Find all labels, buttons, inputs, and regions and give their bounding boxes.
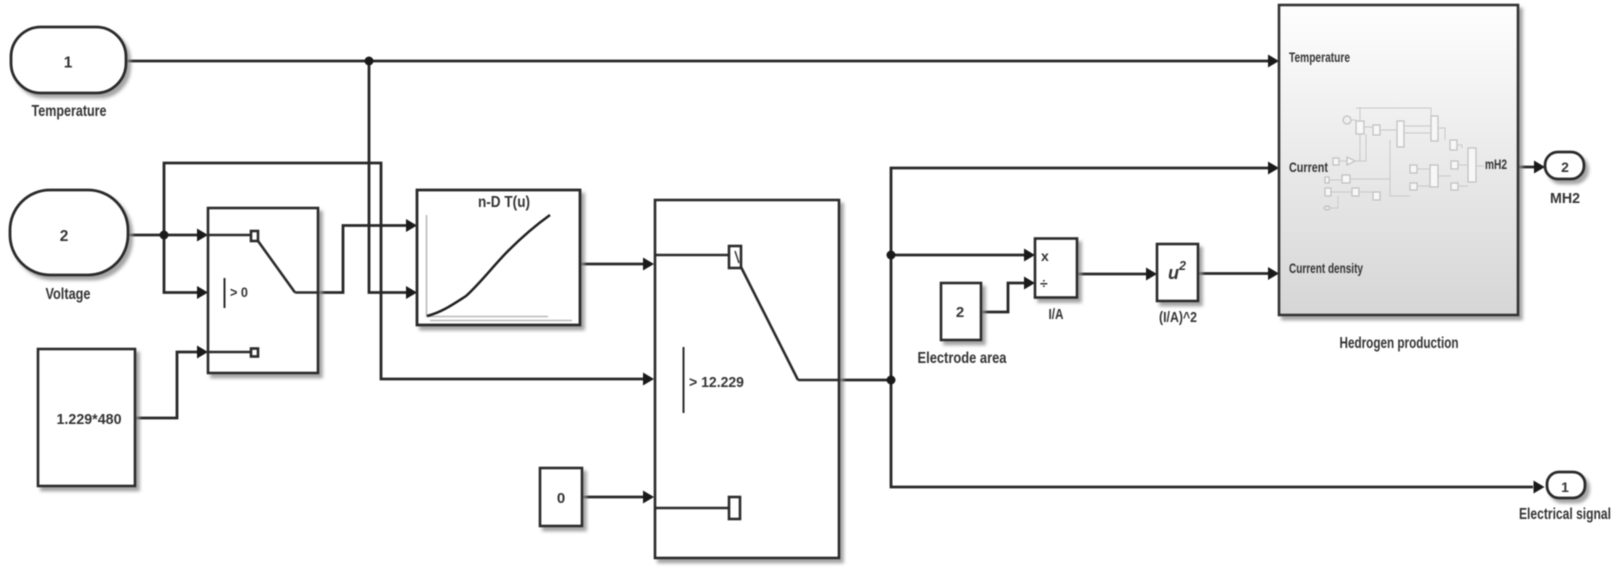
svg-text:x: x	[1041, 248, 1049, 264]
svg-text:Hedrogen production: Hedrogen production	[1340, 335, 1459, 352]
svg-text:MH2: MH2	[1550, 190, 1580, 207]
svg-text:Voltage: Voltage	[46, 286, 91, 303]
svg-text:1: 1	[64, 55, 73, 72]
svg-text:n-D T(u): n-D T(u)	[478, 194, 530, 211]
svg-text:> 0: > 0	[230, 284, 248, 300]
svg-text:1: 1	[1561, 479, 1569, 495]
svg-text:0: 0	[557, 490, 565, 507]
svg-text:2: 2	[60, 228, 69, 245]
svg-text:1.229*480: 1.229*480	[57, 411, 122, 428]
svg-text:Current density: Current density	[1289, 261, 1363, 276]
svg-text:Current: Current	[1289, 160, 1328, 175]
svg-text:(I/A)^2: (I/A)^2	[1159, 309, 1197, 326]
svg-text:2: 2	[1561, 159, 1569, 175]
svg-text:> 12.229: > 12.229	[689, 375, 744, 391]
svg-text:÷: ÷	[1040, 275, 1048, 291]
svg-text:2: 2	[956, 304, 964, 321]
svg-text:Electrical signal: Electrical signal	[1519, 506, 1611, 523]
svg-text:mH2: mH2	[1485, 157, 1507, 172]
svg-text:2: 2	[1178, 259, 1186, 273]
svg-text:Temperature: Temperature	[1289, 50, 1350, 65]
svg-text:I/A: I/A	[1049, 306, 1064, 323]
svg-text:u: u	[1168, 263, 1179, 283]
svg-text:Electrode area: Electrode area	[918, 350, 1007, 367]
svg-text:Temperature: Temperature	[32, 103, 107, 120]
